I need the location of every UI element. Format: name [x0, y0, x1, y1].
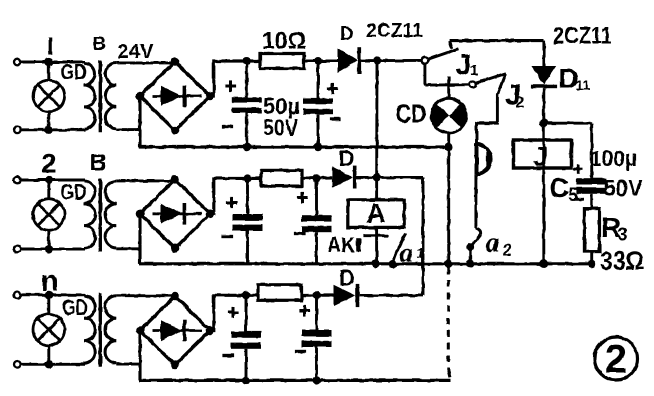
svg-text:100µ: 100µ	[590, 146, 637, 171]
svg-text:D: D	[340, 24, 354, 45]
svg-text:CD: CD	[396, 99, 427, 129]
svg-text:2: 2	[516, 95, 525, 112]
svg-text:J: J	[533, 142, 548, 172]
svg-text:5: 5	[568, 185, 578, 205]
svg-text:1: 1	[470, 62, 478, 79]
svg-text:10Ω: 10Ω	[262, 28, 306, 55]
svg-text:50V: 50V	[604, 175, 644, 201]
svg-text:n: n	[41, 265, 59, 298]
svg-text:a: a	[400, 238, 414, 268]
svg-text:GD: GD	[61, 180, 87, 205]
svg-text:2CZ11: 2CZ11	[366, 20, 423, 42]
svg-text:B: B	[93, 34, 107, 55]
svg-text:a: a	[486, 228, 500, 259]
svg-text:B: B	[90, 150, 107, 177]
svg-text:D: D	[339, 146, 355, 171]
svg-text:AK: AK	[327, 234, 355, 257]
svg-text:2CZ11: 2CZ11	[553, 23, 612, 50]
svg-text:1: 1	[417, 245, 425, 261]
svg-text:33Ω: 33Ω	[600, 246, 644, 276]
svg-text:A: A	[366, 198, 386, 229]
svg-text:D: D	[339, 266, 355, 291]
svg-text:GD: GD	[62, 295, 88, 320]
svg-text:2: 2	[605, 338, 627, 382]
svg-text:24V: 24V	[118, 41, 155, 63]
svg-text:2: 2	[503, 241, 512, 260]
svg-text:2: 2	[42, 149, 57, 179]
svg-text:50V: 50V	[263, 115, 299, 141]
svg-text:11: 11	[576, 77, 591, 93]
svg-text:GD: GD	[61, 60, 87, 85]
svg-text:C: C	[549, 172, 569, 203]
svg-text:3: 3	[618, 225, 628, 245]
